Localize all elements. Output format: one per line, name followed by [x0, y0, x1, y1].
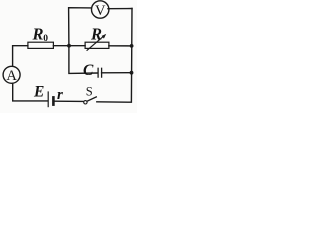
wire: R0 right lead to node junction	[53, 45, 69, 47]
wire: V loop top from node up and across to voltmeter	[69, 8, 92, 46]
wire: node to rheostat left lead	[69, 45, 85, 47]
resistor R0	[28, 42, 54, 48]
svg-text:V: V	[95, 3, 106, 19]
junction node at R0/V/R/C split	[67, 44, 71, 48]
wire: voltmeter to top-right corner	[108, 8, 132, 10]
voltmeter V	[92, 1, 109, 18]
battery E r : short thick plate	[52, 97, 55, 104]
wire: switch to bottom-right corner, up right side to V loop top	[97, 9, 132, 103]
capacitor C left plate	[97, 68, 99, 77]
svg-text:0: 0	[43, 34, 48, 44]
svg-text:S: S	[86, 84, 93, 98]
wire: capacitor branch, node down and across to C left plate	[69, 46, 98, 74]
ammeter A	[3, 66, 20, 83]
svg-text:R: R	[90, 24, 102, 43]
svg-text:R: R	[32, 25, 44, 44]
wire: C right plate to right rail	[102, 72, 132, 74]
battery E r : long plate	[47, 92, 49, 107]
wire: left vertical below ammeter to bottom-left corner	[13, 83, 48, 101]
svg-text:E: E	[33, 83, 44, 100]
switch S lever	[87, 97, 96, 101]
svg-text:C: C	[83, 62, 94, 79]
junction node right rail / rheostat	[130, 44, 134, 48]
switch S pivot circle	[84, 101, 87, 104]
svg-text:A: A	[6, 68, 17, 84]
wire: top-left horizontal, battery+ to R0 left lead	[13, 46, 28, 67]
rheostat R arrow	[87, 34, 107, 51]
wire: battery to switch	[55, 100, 84, 102]
svg-text:r: r	[57, 87, 63, 103]
capacitor C right plate	[101, 68, 103, 77]
wire: rheostat right lead to right rail	[109, 45, 132, 47]
rheostat R box	[85, 42, 109, 48]
junction node right rail / capacitor	[130, 71, 134, 75]
